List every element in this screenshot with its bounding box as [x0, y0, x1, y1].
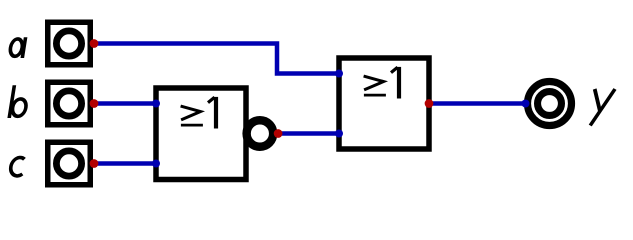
OR gate U2 box [339, 58, 429, 149]
NOR gate U1 label ">=1" [181, 97, 216, 129]
node: input a output pin (red dot) [90, 39, 99, 48]
wire from input a to OR gate U2 pin 1 [94, 44, 339, 74]
wire from NOR U1 output to OR gate U2 pin 2 [279, 131, 340, 136]
node: OR U2 input pin 2 (blue dot) [335, 130, 343, 138]
node: OR U2 output pin (red dot) [425, 99, 434, 108]
node: NOR U1 input pin b (blue dot) [152, 100, 160, 108]
input a terminal (square with circle) [48, 22, 91, 65]
node: input b output pin (red dot) [90, 99, 99, 108]
label b (input b) [9, 85, 29, 118]
label y (output y) [589, 89, 615, 126]
output y terminal (double circle) [528, 82, 572, 126]
wire from input b to NOR gate U1 pin 1 [94, 101, 156, 106]
node: NOR U1 output pin (red dot) [274, 129, 283, 138]
OR gate U2 label ">=1" [364, 67, 399, 99]
NOR gate U1 output bubble [247, 120, 274, 147]
node: input c output pin (red dot) [90, 159, 99, 168]
label a (input a) [9, 37, 26, 58]
input c terminal (square with circle) [48, 142, 91, 185]
label c (input c) [9, 158, 25, 176]
node: NOR U1 input pin c (blue dot) [152, 160, 160, 168]
NOR gate U1 box [156, 88, 246, 180]
wire from input c to NOR gate U1 pin 2 [94, 161, 156, 166]
node: OR U2 input pin 1 (blue dot) [335, 70, 343, 78]
node: output y input pin (blue dot) [522, 100, 530, 108]
wire from OR U2 output to output y [429, 101, 526, 106]
input b terminal (square with circle) [48, 82, 91, 125]
